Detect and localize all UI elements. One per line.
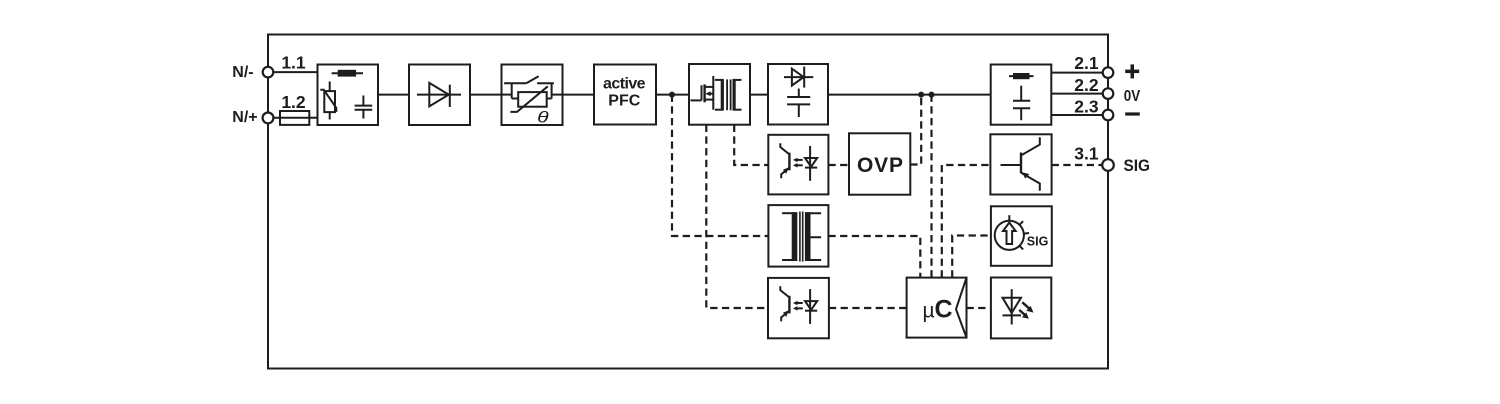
svg-text:OVP: OVP [857,154,903,177]
LED block [991,278,1051,339]
capacitor C2 [787,89,810,117]
active PFC block [594,65,656,125]
dashed wire (aux transformer to microcontroller) [828,236,920,278]
microcontroller block [907,278,967,338]
potentiometer dial [995,215,1029,250]
transformer T1 [715,79,742,110]
svg-text:2.2: 2.2 [1074,75,1099,95]
transformer T2 [782,212,821,262]
wire 2.2 (output filter to terminal 2.2) [1051,93,1108,95]
svg-text:1.2: 1.2 [281,92,306,112]
wire 2.3 (output filter to terminal 2.3) [1051,114,1108,116]
diode D2 [784,67,813,88]
svg-text:N/-: N/- [232,64,253,81]
svg-text:SIG: SIG [1027,235,1049,249]
svg-text:1.1: 1.1 [281,52,306,72]
terminal N/+ [263,113,274,124]
terminal 2.1 [1103,67,1114,78]
terminal 2.2 [1103,88,1114,99]
SIG potentiometer block [991,206,1052,265]
wire (inrush limiter to active PFC) [563,94,595,96]
svg-text:µ: µ [923,300,935,323]
converter block [689,64,750,125]
signal transistor block [990,134,1051,194]
node B (junction dot on output line) [918,92,924,98]
wire (input filter to bridge rectifier) [378,94,409,96]
svg-text:θ: θ [537,110,549,127]
node A (junction dot after PFC) [669,92,675,98]
node C (junction dot on output line) [929,92,935,98]
dashed wire (optocoupler U3 to microcontroller) [829,307,907,309]
microcontroller DAC triangle [956,278,967,338]
output rectifier block [768,64,828,125]
svg-text:3.1: 3.1 [1074,143,1099,163]
dashed wire (OVP up to output node A) [910,95,921,165]
svg-text:SIG: SIG [1124,157,1151,175]
label active PFC [603,76,646,110]
label - (minus output) [1125,112,1140,115]
svg-text:N/+: N/+ [232,109,257,126]
wire (bridge rectifier to inrush limiter) [470,94,502,96]
wire (active PFC to converter) [656,94,689,96]
terminal 2.3 [1103,110,1114,121]
aux transformer block [768,205,828,267]
terminal 3.1 [1102,159,1114,171]
wire 1.2 (terminal N/+ to input filter through fuse) [268,117,318,119]
choke L1 [332,70,363,77]
terminal N/- [263,67,274,78]
diode D1 [417,83,461,107]
optocoupler U2 symbol [780,143,817,181]
capacitor C3 [1013,86,1030,121]
dashed wire 3.1 (signal transistor to terminal 3.1) [1052,164,1103,166]
transistor Q2 (PNP) [1001,137,1040,191]
choke L2 [1009,73,1034,79]
relay contact K1 [504,76,554,83]
dashed wire (microcontroller to signal transistor) [942,165,991,278]
LED D3 [1003,289,1034,324]
optocoupler U3 symbol [780,286,817,324]
svg-text:0V: 0V [1124,88,1141,105]
svg-text:2.3: 2.3 [1074,97,1099,117]
label + (plus output) [1125,64,1139,78]
dashed wire (converter to optocoupler U2) [734,125,768,165]
optocoupler U3 block [768,278,829,338]
varistor RV1 [320,82,336,120]
dashed wire (output node B down to microcontroller) [930,95,932,278]
bridge rectifier block [409,65,470,126]
OVP block [849,133,910,194]
dashed wire (microcontroller to LED) [967,307,991,309]
input filter block [318,65,379,126]
svg-text:C: C [935,296,953,324]
dashed wire (microcontroller to SIG potentiometer) [952,236,991,278]
dashed wire (PFC node down and right to aux transformer) [672,95,768,236]
svg-text:PFC: PFC [608,92,640,109]
wire 1.1 (terminal N/- to input filter) [268,71,318,73]
output filter block [991,65,1052,125]
NTC thermistor R1 [502,83,563,112]
svg-text:active: active [603,76,646,93]
inrush limiter block [502,65,563,126]
fuse F1 [280,111,309,125]
svg-text:2.1: 2.1 [1074,53,1099,73]
label uC [923,296,953,324]
dashed wire (converter to optocoupler U3) [706,125,768,308]
capacitor C1 [355,96,373,119]
wire (output rectifier to output filter) [828,94,991,96]
wire (converter to output rectifier) [750,94,768,96]
wire 2.1 (output filter to terminal 2.1) [1051,72,1108,74]
optocoupler U2 block [768,135,828,195]
transistor Q1 (MOSFET) [691,76,714,110]
dashed wire (optocoupler U2 to OVP) [828,164,849,166]
outer frame [268,35,1108,369]
